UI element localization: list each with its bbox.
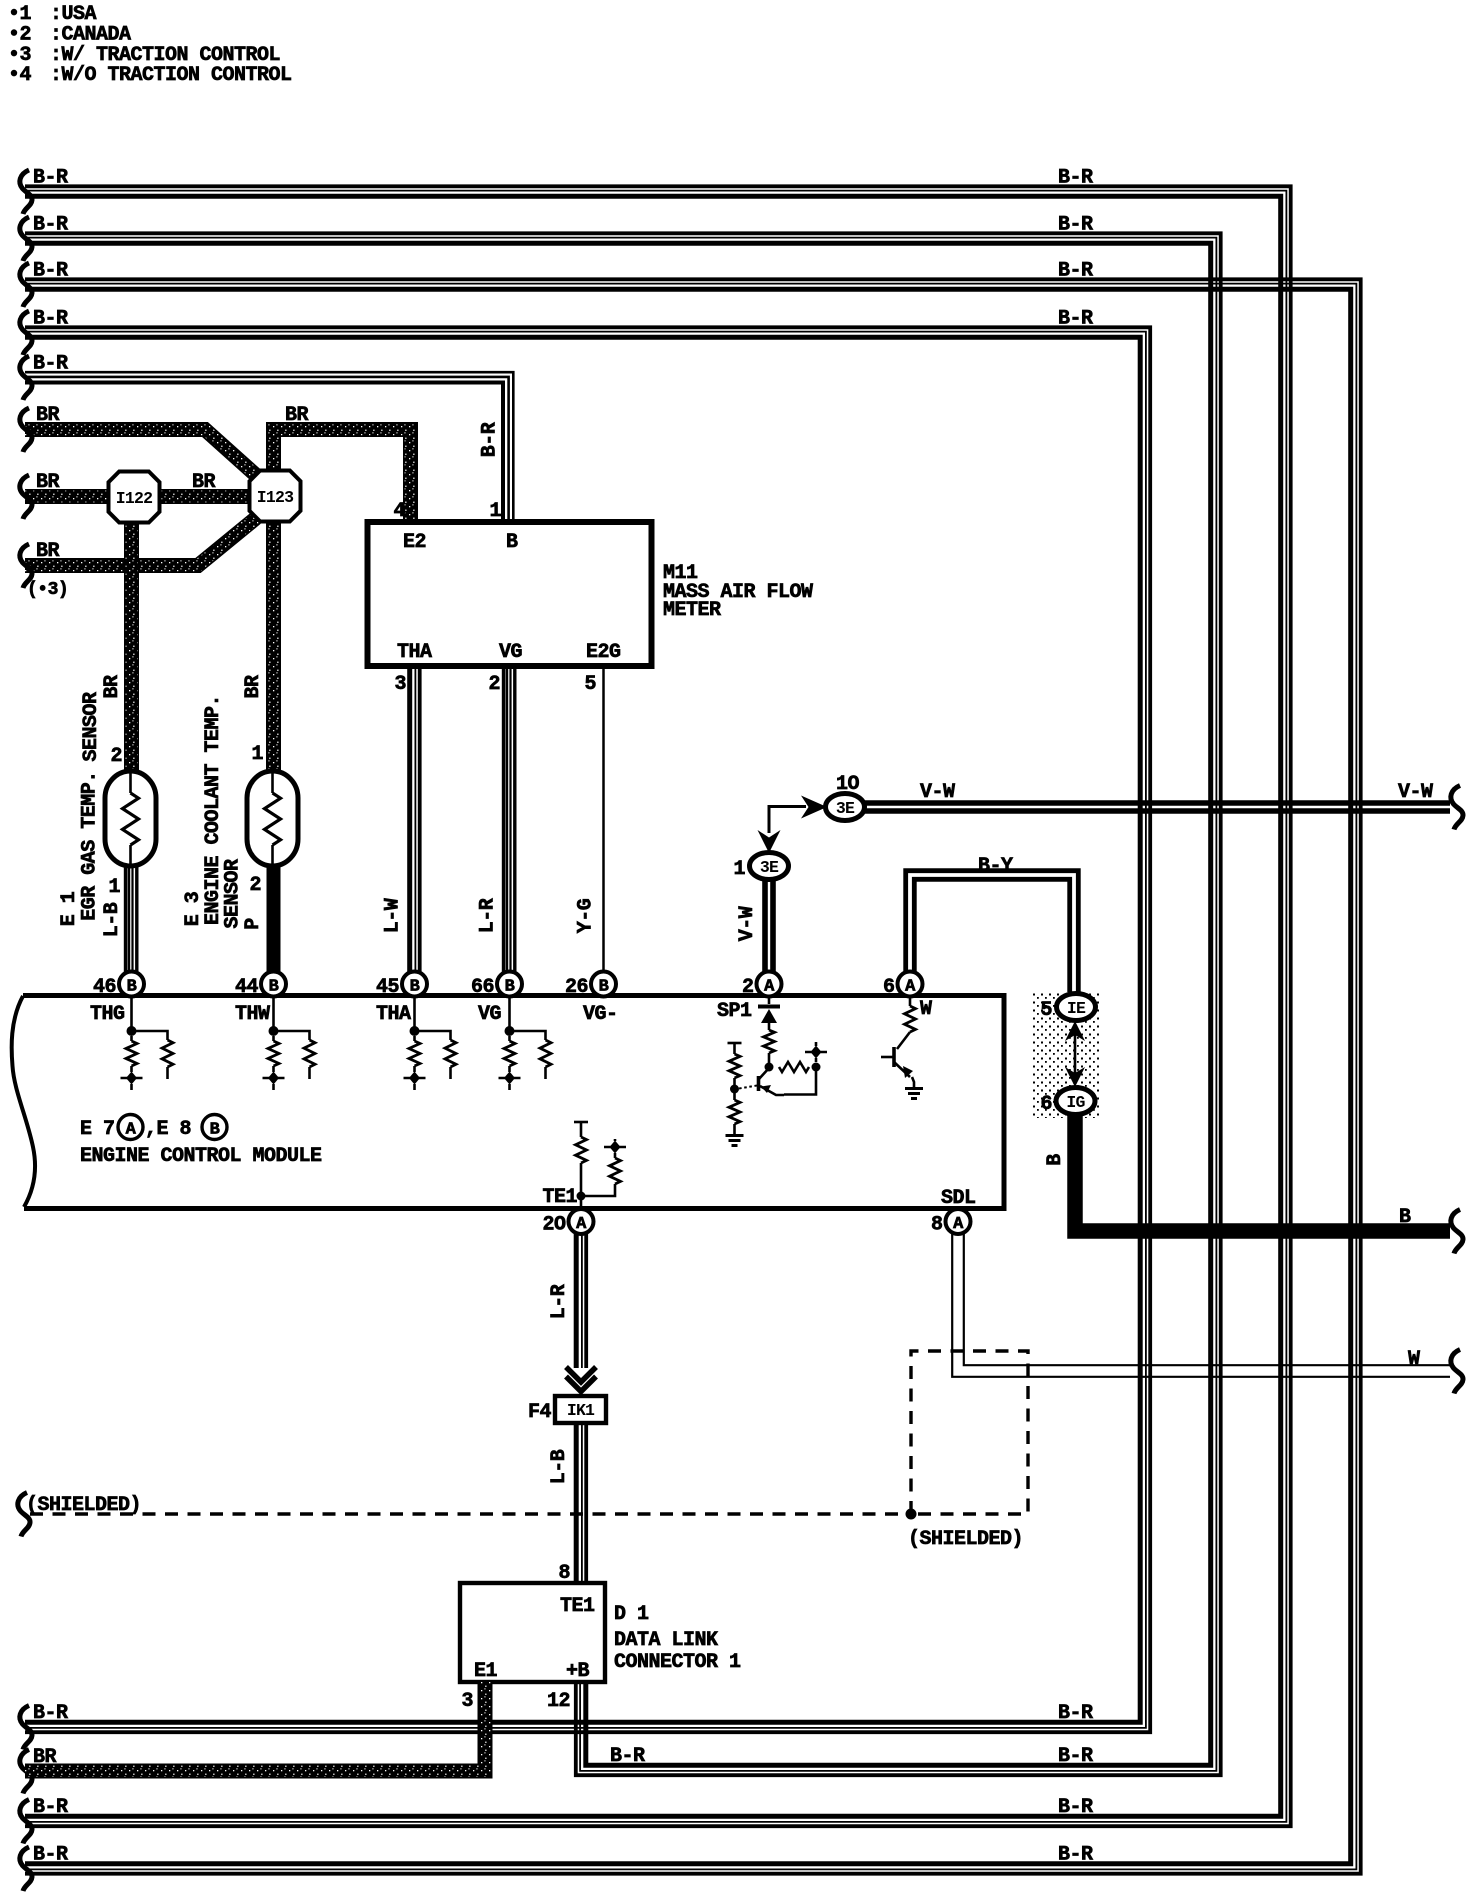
- wire B-R to MAF pin1: [25, 372, 513, 524]
- svg-text:BR: BR: [285, 404, 309, 427]
- svg-text:ENGINE CONTROL MODULE: ENGINE CONTROL MODULE: [80, 1145, 322, 1168]
- svg-text:L-W: L-W: [382, 898, 405, 933]
- svg-text:BR: BR: [101, 675, 124, 699]
- svg-text:VG-: VG-: [583, 1003, 618, 1026]
- break symbol left edge B-R bus 2: [20, 217, 32, 261]
- wire L-W THA to ECM pin45: [418, 667, 422, 972]
- arrow chevrons into IK1: [566, 1367, 596, 1382]
- svg-text:A: A: [126, 1121, 137, 1140]
- break symbol left edge B-R bus 5: [20, 356, 32, 400]
- svg-text:(•3): (•3): [27, 580, 68, 600]
- svg-text:B: B: [505, 978, 515, 997]
- SP1 internal circuit with PNP transistor Q1: [768, 996, 771, 1004]
- svg-text:1O: 1O: [836, 773, 860, 796]
- svg-text:B-R: B-R: [1058, 1745, 1093, 1768]
- svg-text:BR: BR: [36, 540, 60, 563]
- svg-text:VG: VG: [499, 641, 523, 664]
- svg-text:5: 5: [584, 673, 596, 696]
- svg-text:12: 12: [547, 1690, 570, 1713]
- svg-text:4: 4: [393, 500, 405, 523]
- break symbol left edge B-R bus 3: [20, 263, 32, 307]
- svg-text:V-W: V-W: [920, 781, 955, 804]
- ECM pin 45 B THA: [402, 972, 427, 997]
- svg-text:B-R: B-R: [1058, 1796, 1093, 1819]
- svg-text:THA: THA: [376, 1003, 411, 1026]
- svg-text:8: 8: [931, 1214, 943, 1237]
- svg-text:3E: 3E: [836, 799, 855, 818]
- svg-text:CONNECTOR 1: CONNECTOR 1: [614, 1651, 741, 1674]
- svg-text:THW: THW: [235, 1003, 270, 1026]
- break symbol left edge BR1: [20, 408, 32, 452]
- svg-text:IK1: IK1: [567, 1401, 595, 1420]
- dashed shield box around W wire: [911, 1351, 1028, 1514]
- svg-text:B-R: B-R: [33, 1702, 68, 1725]
- junction block F4 IK1: [555, 1396, 606, 1423]
- svg-text:THG: THG: [90, 1003, 125, 1026]
- wire B solid from IG to right edge: [1075, 1114, 1450, 1231]
- svg-text:2: 2: [110, 745, 122, 768]
- svg-text:E1: E1: [474, 1660, 498, 1683]
- svg-text:2: 2: [488, 673, 500, 696]
- svg-text:E 1: E 1: [58, 891, 81, 926]
- arrow into connector 3E pin10: [801, 796, 827, 819]
- svg-text:6: 6: [883, 976, 895, 999]
- dashed shield line: [30, 1512, 906, 1515]
- svg-text:B-R: B-R: [33, 260, 68, 283]
- wire V-W 3E pin1 to ECM pin2: [770, 879, 776, 972]
- svg-text:BR: BR: [192, 471, 216, 494]
- ECM pin 26 B VG-: [591, 972, 616, 997]
- svg-text:B-Y: B-Y: [978, 855, 1013, 878]
- svg-text:SENSOR: SENSOR: [80, 692, 103, 762]
- svg-text:1: 1: [489, 500, 501, 523]
- svg-text:44: 44: [235, 976, 259, 999]
- engine control module box edges: [23, 996, 1004, 1209]
- wire BR stub 1 with diagonal to I123: [25, 430, 258, 478]
- ECM pin 66 B VG: [497, 972, 522, 997]
- W resistor and NPN transistor Q2 at pin6: [909, 996, 912, 1006]
- junction dot on shield line: [906, 1509, 917, 1520]
- wire BR I122 to I123: [156, 489, 251, 504]
- svg-text:E2G: E2G: [586, 641, 621, 664]
- arrow down into connector 3E pin1: [758, 830, 781, 853]
- svg-text:EGR GAS TEMP.: EGR GAS TEMP.: [79, 771, 102, 921]
- wire Y-G E2G to ECM pin26: [602, 667, 605, 972]
- ECM pin 8 A SDL: [946, 1209, 971, 1234]
- resistor network at THW: [272, 996, 275, 1031]
- svg-text:TE1: TE1: [542, 1186, 577, 1209]
- wire L-R VG to ECM pin66: [513, 667, 516, 972]
- break symbol left edge BR2: [20, 475, 32, 519]
- svg-text:B: B: [1044, 1154, 1067, 1166]
- connector I123 octagon: [250, 471, 301, 522]
- TE1 internal pull-up network: [574, 1121, 588, 1124]
- connector 3E pin10 oval: [826, 794, 865, 821]
- svg-text:E 7: E 7: [80, 1118, 115, 1141]
- svg-text:1: 1: [251, 743, 263, 766]
- break symbol left edge B-R bus 1: [20, 170, 32, 214]
- break symbol left edge BR bottom2: [20, 1750, 32, 1794]
- svg-text:1: 1: [108, 876, 120, 899]
- resistor network at VG: [508, 996, 511, 1031]
- svg-text:B-R: B-R: [479, 422, 502, 457]
- svg-text:3: 3: [394, 673, 406, 696]
- svg-text:L-B: L-B: [548, 1449, 571, 1484]
- svg-text:B-R: B-R: [1058, 167, 1093, 190]
- wire B-R bus 3 (top row3, right vertical x1355, bottom row to left edge): [25, 279, 1361, 1873]
- svg-text:66: 66: [471, 976, 494, 999]
- mass air flow meter M11 box: [368, 522, 652, 666]
- svg-text:,E 8: ,E 8: [145, 1118, 191, 1141]
- wire BR I123 down to coolant sensor: [266, 518, 281, 773]
- connector IE oval: [1057, 994, 1096, 1021]
- svg-text:BR: BR: [36, 471, 60, 494]
- svg-text:+B: +B: [566, 1660, 590, 1683]
- svg-text:B: B: [599, 978, 609, 997]
- ECM pin 46 B THG: [119, 972, 144, 997]
- double arrow between IE and IG: [1074, 1032, 1077, 1076]
- svg-text:L-B: L-B: [101, 902, 124, 937]
- ECM pin 20 A TE1: [569, 1209, 594, 1234]
- resistor network at THG: [130, 996, 133, 1031]
- svg-text:A: A: [905, 978, 916, 997]
- wire BR from DLC1 E1 to left edge: [25, 1682, 485, 1771]
- break symbol left edge BR3: [20, 544, 32, 588]
- svg-text:IG: IG: [1066, 1093, 1085, 1112]
- break symbol left edge shielded line: [18, 1493, 30, 1537]
- wire BR I123 up-over-down to MAF E2 pin4: [274, 430, 411, 525]
- svg-text::W/O TRACTION CONTROL: :W/O TRACTION CONTROL: [50, 64, 292, 87]
- svg-text:3E: 3E: [760, 858, 779, 877]
- svg-text:IE: IE: [1067, 999, 1086, 1018]
- svg-text:B-R: B-R: [610, 1745, 645, 1768]
- svg-text:B-R: B-R: [1058, 214, 1093, 237]
- wire BR I122 down to EGR sensor: [124, 518, 139, 773]
- svg-text:46: 46: [93, 976, 116, 999]
- break symbol left edge B-R bottom4: [20, 1847, 32, 1891]
- svg-text:I123: I123: [257, 488, 294, 507]
- svg-text:L-R: L-R: [548, 1284, 571, 1319]
- svg-text:THA: THA: [397, 641, 432, 664]
- svg-text:W: W: [1408, 1348, 1420, 1371]
- wire B-Y from ECM pin6 to IE connector: [906, 871, 1079, 994]
- svg-text:BR: BR: [242, 675, 265, 699]
- svg-text:SENSOR: SENSOR: [222, 859, 245, 929]
- svg-text:•4: •4: [8, 64, 32, 87]
- svg-text:I122: I122: [116, 489, 152, 508]
- svg-text:(SHIELDED): (SHIELDED): [908, 1528, 1023, 1551]
- wire L-R TE1 to junction IK1: [584, 1234, 588, 1368]
- break symbol left edge B-R bottom3: [20, 1800, 32, 1844]
- svg-text:B-R: B-R: [33, 353, 68, 376]
- svg-text:L-R: L-R: [477, 898, 500, 933]
- svg-text:W: W: [920, 998, 932, 1021]
- svg-text:B: B: [210, 1121, 220, 1140]
- svg-text:B: B: [127, 978, 137, 997]
- wire BR stub 2 to I122: [25, 489, 112, 504]
- svg-text:45: 45: [376, 976, 399, 999]
- wire B-R bus 2 (top row2, right vertical x1215, bottom to DLC1 +B): [25, 233, 1221, 1775]
- wire W from SDL to right edge: [964, 1234, 1450, 1365]
- svg-text:D 1: D 1: [614, 1603, 649, 1626]
- svg-text:P: P: [242, 918, 265, 930]
- svg-text:B-R: B-R: [1058, 308, 1093, 331]
- svg-text:V-W: V-W: [1398, 781, 1433, 804]
- engine coolant temp sensor E3 body: [247, 771, 298, 866]
- svg-text:B-R: B-R: [33, 308, 68, 331]
- break symbol right edge W: [1451, 1350, 1463, 1394]
- svg-text:F4: F4: [528, 1401, 552, 1424]
- svg-text:BR: BR: [36, 404, 60, 427]
- svg-text:2O: 2O: [542, 1214, 566, 1237]
- wire L-B IK1 to DLC1 pin8: [584, 1424, 588, 1583]
- svg-text:METER: METER: [663, 599, 721, 622]
- svg-text:DATA LINK: DATA LINK: [614, 1629, 718, 1652]
- svg-text:B-R: B-R: [1058, 1844, 1093, 1867]
- wire thin jumper from 3E pin10 to 3E pin1: [769, 807, 806, 834]
- svg-text:B-R: B-R: [1058, 1702, 1093, 1725]
- break symbol left edge B-R bus 4: [20, 311, 32, 355]
- svg-text:B: B: [1399, 1206, 1411, 1229]
- svg-text:E 3: E 3: [182, 892, 205, 927]
- svg-text:2: 2: [742, 976, 754, 999]
- svg-text:SP1: SP1: [717, 1000, 752, 1023]
- svg-text:B-R: B-R: [1058, 260, 1093, 283]
- svg-text:TE1: TE1: [560, 1595, 595, 1618]
- svg-text:A: A: [576, 1215, 587, 1234]
- svg-text:A: A: [764, 978, 775, 997]
- svg-text:SDL: SDL: [941, 1187, 976, 1210]
- svg-text:B-R: B-R: [33, 214, 68, 237]
- svg-text:1: 1: [733, 858, 745, 881]
- svg-text:5: 5: [1040, 999, 1052, 1022]
- wire V-W to right edge: [864, 800, 1450, 806]
- wire B-R bus 4 (top row4, right vertical x1145, bottom row to left edge): [25, 327, 1150, 1732]
- svg-text:B-R: B-R: [33, 1796, 68, 1819]
- svg-text:VG: VG: [478, 1003, 502, 1026]
- svg-text:A: A: [953, 1215, 964, 1234]
- wire P solid E3 to ECM pin44: [267, 866, 281, 972]
- connector 3E pin1 oval: [750, 853, 789, 880]
- connector I122 octagon: [109, 472, 160, 523]
- ECM pin 6 A W: [898, 972, 923, 997]
- svg-text:B: B: [506, 531, 518, 554]
- wire L-B E1 to ECM pin46: [135, 866, 138, 972]
- svg-text:2: 2: [249, 874, 261, 897]
- svg-text:B: B: [410, 978, 420, 997]
- svg-text:B-R: B-R: [33, 167, 68, 190]
- svg-text:6: 6: [1040, 1093, 1052, 1116]
- svg-text:B-R: B-R: [33, 1844, 68, 1867]
- svg-text:V-W: V-W: [736, 906, 759, 941]
- svg-text:B: B: [269, 978, 279, 997]
- break symbol right edge B: [1451, 1210, 1463, 1254]
- svg-text:E2: E2: [403, 531, 426, 554]
- ECM pin 2 A SP1: [757, 972, 782, 997]
- break symbol right edge V-W: [1451, 786, 1463, 830]
- break symbol left edge B-R bottom1: [20, 1706, 32, 1750]
- svg-text:Y-G: Y-G: [575, 898, 598, 933]
- ECM pin 44 B THW: [261, 972, 286, 997]
- data link connector D1 box: [460, 1583, 605, 1682]
- EGR gas temp sensor E1 body: [105, 771, 156, 866]
- resistor network at THA: [413, 996, 416, 1031]
- wire BR stub 3 (#3) with diagonal to I123: [25, 518, 256, 566]
- wire B-R bus 1 (top row1, right vertical x1285, bottom row to left edge): [25, 186, 1291, 1826]
- stipple patch behind IE IG connectors: [1031, 992, 1099, 1118]
- svg-text:26: 26: [565, 976, 588, 999]
- connector IG oval: [1056, 1088, 1095, 1115]
- svg-text:3: 3: [461, 1690, 473, 1713]
